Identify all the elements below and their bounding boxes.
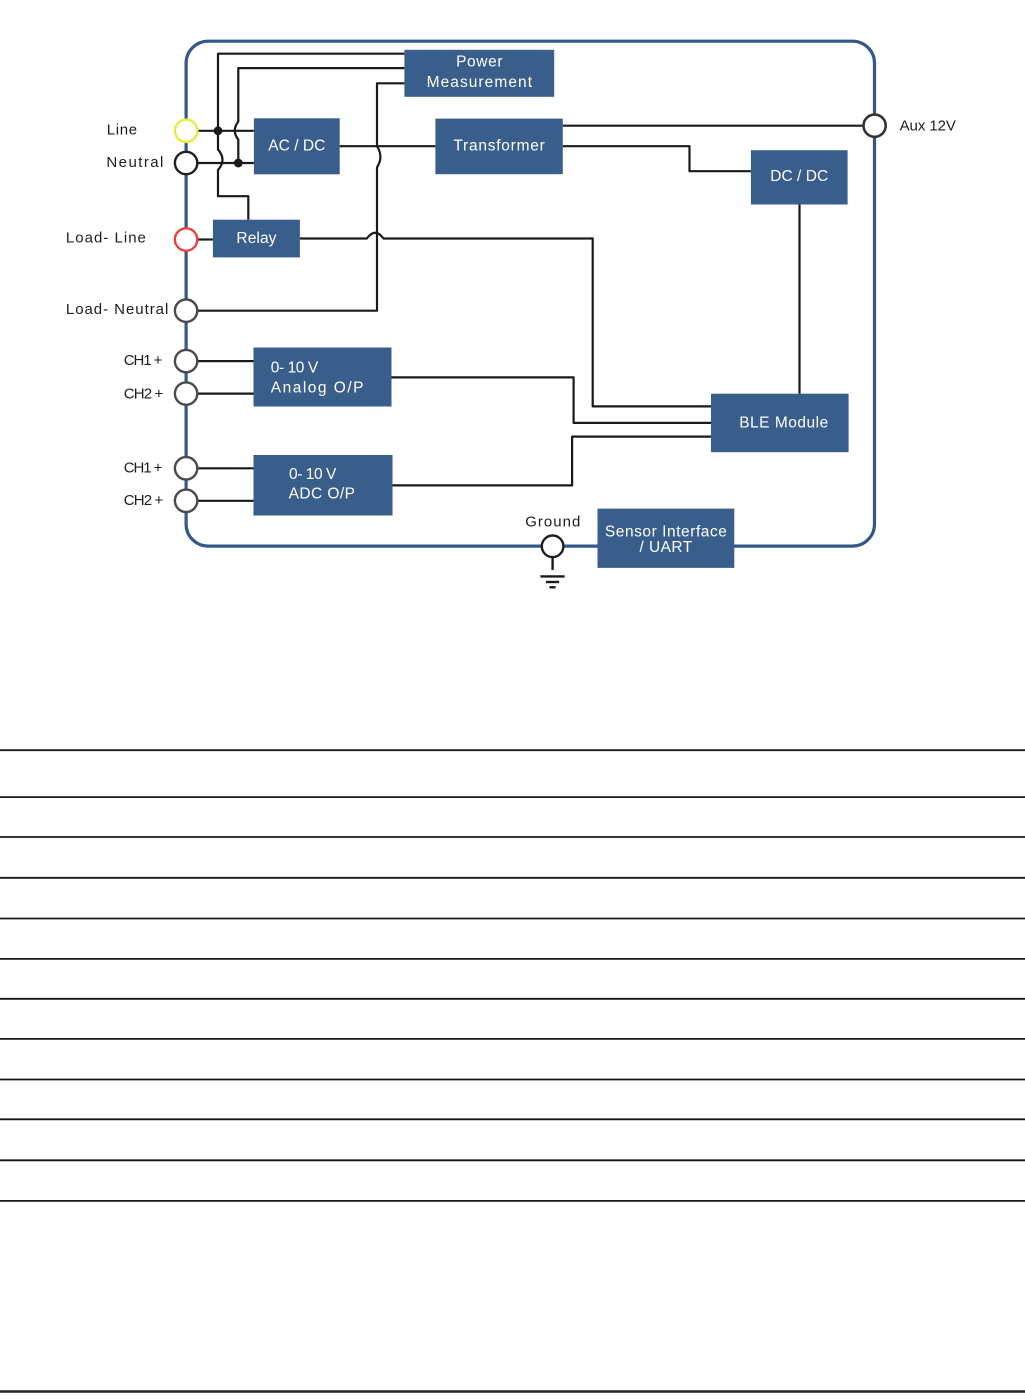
table rule 1 [0,749,1025,751]
svg-text:BLE Module: BLE Module [739,415,828,432]
terminal Load-Neutral [175,300,197,322]
wire DC/DC to BLE Module [798,205,800,394]
svg-text:AC / DC: AC / DC [268,138,325,155]
table rule 5 [0,918,1025,920]
svg-text:Ground: Ground [525,513,580,530]
block 0-10V ADC O/P [254,455,393,516]
terminal CH2+ (adc) [175,490,197,512]
wire Neutral to AC/DC [197,162,254,164]
svg-text:Analog O/P: Analog O/P [271,379,364,396]
table rule 12 [0,1200,1025,1202]
table rule 6 [0,958,1025,960]
wire CH2+ to ADC O/P [197,500,253,502]
svg-text:Sensor Interface: Sensor Interface [605,523,727,540]
table rule 2 [0,796,1025,798]
wire Line tap to Power Measurement (top) and down to Relay [218,54,404,220]
svg-text:Neutral: Neutral [106,154,163,171]
svg-text:0- 10 V: 0- 10 V [271,360,319,377]
table rule 3 [0,836,1025,838]
terminal CH1+ (analog) [175,350,197,372]
wire Transformer to Aux 12V [563,125,864,127]
svg-text:Load- Neutral: Load- Neutral [66,301,168,318]
wire Line to AC/DC [197,130,254,132]
wire Relay to BLE Module [300,233,711,407]
junction dot on Neutral wire [234,159,243,168]
svg-text:/ UART: / UART [640,539,693,556]
table rule 7 [0,998,1025,1000]
table rule 11 [0,1159,1025,1161]
svg-text:Relay: Relay [236,230,276,247]
table rule 9 [0,1079,1025,1081]
block AC / DC [254,118,340,174]
svg-text:DC / DC: DC / DC [770,168,828,185]
svg-text:Load- Line: Load- Line [66,230,146,247]
terminal CH1+ (adc) [175,457,197,479]
wire Analog O/P to BLE Module [392,377,712,423]
block Relay [213,220,300,258]
block Sensor Interface / UART [598,509,735,568]
terminal CH2+ (analog) [175,382,197,404]
wire CH1+ to ADC O/P [197,467,253,469]
enclosure border [186,41,874,546]
block Power Measurement [404,50,554,97]
block 0-10V Analog O/P [254,348,392,407]
wire Transformer to DC/DC [563,146,751,171]
table rule 4 [0,877,1025,879]
svg-text:Measurement: Measurement [427,74,533,91]
wire Neutral tap to Power Measurement (second) [235,68,405,163]
svg-text:Transformer: Transformer [453,138,544,155]
wire Load-Line to Relay [197,238,213,240]
svg-text:Line: Line [107,121,137,138]
svg-text:CH2 +: CH2 + [124,386,164,403]
svg-text:CH1 +: CH1 + [124,352,163,369]
junction dot on Line wire [214,126,223,135]
svg-text:CH2 +: CH2 + [124,492,164,509]
wire Load-Neutral to Power Measurement (third) [197,83,404,310]
terminal Neutral [175,152,197,174]
wire CH2+ to Analog O/P [197,393,253,395]
wire CH1+ to Analog O/P [197,360,253,362]
block BLE Module [711,394,849,453]
terminal Line [175,120,197,142]
terminal Load-Line [175,228,197,250]
block Transformer [435,119,562,175]
svg-text:CH1 +: CH1 + [124,460,163,477]
terminal Aux 12V [864,115,886,137]
footer bar [0,1390,1025,1393]
ground symbol [540,557,564,587]
terminal Ground [542,536,564,558]
table rule 8 [0,1038,1025,1040]
svg-text:0- 10 V: 0- 10 V [289,466,337,483]
wire AC/DC to Transformer [340,145,436,147]
block DC / DC [751,150,848,204]
svg-text:ADC O/P: ADC O/P [289,485,355,502]
svg-text:Power: Power [456,54,502,71]
wire ADC O/P to BLE Module [393,437,712,486]
table rule 10 [0,1118,1025,1120]
svg-text:Aux 12V: Aux 12V [900,117,956,134]
